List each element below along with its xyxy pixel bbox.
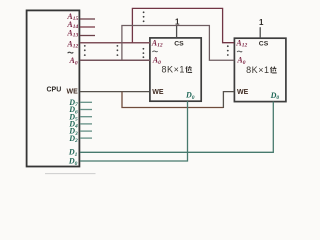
svg-text:1: 1	[175, 17, 180, 26]
svg-text:8K×1: 8K×1	[162, 65, 185, 75]
svg-text:WE: WE	[152, 89, 164, 96]
svg-text:1: 1	[259, 18, 264, 27]
svg-text:WE: WE	[67, 89, 79, 96]
svg-text:8K×1: 8K×1	[246, 65, 269, 75]
svg-text:CS: CS	[259, 41, 269, 48]
svg-text:CS: CS	[174, 41, 184, 48]
svg-text:CPU: CPU	[47, 87, 62, 94]
svg-text:WE: WE	[237, 89, 249, 96]
